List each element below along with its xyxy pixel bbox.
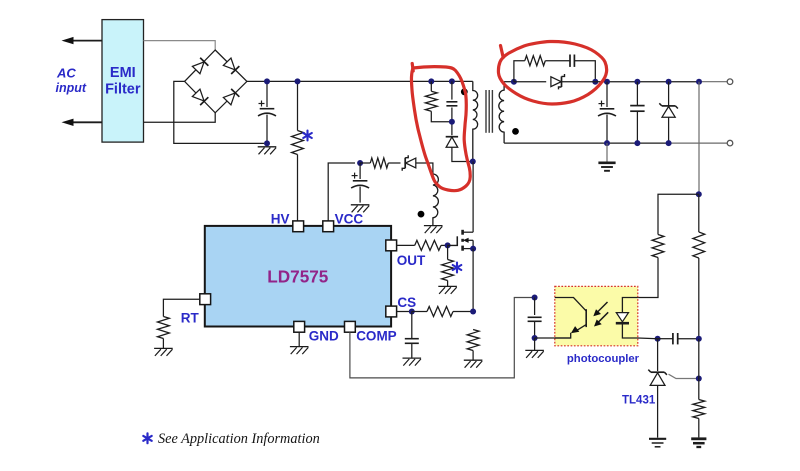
node feedback tap bbox=[696, 191, 702, 197]
ground output (earth) bbox=[598, 163, 615, 171]
capacitor output electrolytic bbox=[598, 82, 616, 143]
transformer primary polarity dot bbox=[461, 88, 468, 95]
wire source down to CS node bbox=[472, 249, 474, 312]
node snubber C top bbox=[449, 78, 455, 84]
node opto emitter bbox=[532, 335, 538, 341]
node HV resistor top bbox=[295, 78, 301, 84]
wire diode anode segment bbox=[514, 81, 546, 83]
wire HV resistor to HV pin bbox=[297, 155, 299, 222]
svg-text:LD7575: LD7575 bbox=[267, 267, 329, 287]
wire gate node down bbox=[447, 245, 449, 259]
bridge diode D1 (top-left) bbox=[192, 58, 208, 74]
terminal output + bbox=[727, 79, 733, 85]
wire rail to HV resistor bbox=[297, 81, 299, 130]
node zener top bbox=[666, 79, 672, 85]
node drain (primary bottom) bbox=[470, 159, 476, 165]
node snubber mid bbox=[449, 119, 455, 125]
node bulk cap top bbox=[264, 78, 270, 84]
resistor snubber R bbox=[425, 91, 437, 111]
node feedback at + rail bbox=[696, 79, 702, 85]
wire VCC resistor to diode bbox=[388, 162, 400, 164]
bridge rectifier diamond wires bbox=[185, 50, 247, 113]
capacitor output filter C2 bbox=[630, 82, 644, 143]
ground opto emitter bbox=[525, 350, 544, 358]
node CS at source bbox=[470, 309, 476, 315]
wire drain bbox=[472, 162, 474, 233]
ground aux winding bbox=[424, 226, 443, 234]
node C2 bottom bbox=[634, 140, 640, 146]
capacitor VCC (electrolytic) bbox=[351, 163, 369, 203]
svg-text:TL431: TL431 bbox=[622, 395, 656, 407]
wire LED resistor to photocoupler bbox=[638, 258, 658, 298]
capacitor CS filter bbox=[405, 312, 419, 358]
AC input arrow top bbox=[62, 37, 103, 44]
capacitor secondary snubber bbox=[570, 55, 574, 67]
wire main HV rail bbox=[247, 80, 473, 82]
node zener bottom bbox=[666, 140, 672, 146]
capacitor comp feedback bbox=[658, 333, 699, 344]
wire RT resistor to ground bbox=[162, 339, 164, 349]
pin VCC bbox=[323, 221, 334, 232]
note asterisk bbox=[143, 433, 151, 443]
wire secondary node to snubber R bbox=[514, 61, 525, 82]
resistor gate pulldown bbox=[442, 260, 454, 281]
red annotation loop secondary snubber bbox=[498, 41, 606, 104]
label CS bbox=[397, 295, 416, 310]
wire bridge left corner to ground rail bbox=[174, 81, 264, 143]
node CS bbox=[409, 309, 415, 315]
wire rail to snubber resistor bbox=[430, 81, 432, 91]
resistor R-HV (startup) bbox=[292, 131, 304, 155]
svg-text:CS: CS bbox=[397, 295, 416, 310]
asterisk at gate pulldown bbox=[453, 263, 462, 273]
wire gate resistor to gate bbox=[441, 244, 448, 246]
wire VCC pin riser bbox=[328, 163, 355, 221]
node TL431 ref bbox=[696, 376, 702, 382]
wire snubber R bottom to node bbox=[431, 111, 452, 122]
wire VCC diode to aux winding bbox=[416, 163, 433, 174]
wire OUT pin to gate resistor bbox=[397, 244, 415, 246]
photocoupler light arrow 1 bbox=[593, 302, 607, 316]
node bulk cap bottom bbox=[264, 140, 270, 146]
wire output + rail to terminal (gray) bbox=[699, 81, 727, 83]
label VCC bbox=[335, 212, 364, 227]
wire secondary bottom rail bbox=[504, 142, 668, 144]
label RT bbox=[181, 310, 200, 325]
photocoupler light arrow 2 bbox=[594, 312, 608, 326]
diode clamp D (pointing up) bbox=[446, 137, 458, 148]
resistor secondary snubber bbox=[525, 56, 546, 66]
op-amp U1 LD7575 body bbox=[205, 226, 391, 327]
wire opto emitter to box bbox=[535, 337, 555, 339]
EMI filter block bbox=[102, 20, 144, 143]
note See Application Information bbox=[158, 431, 320, 447]
pin GND bbox=[294, 321, 305, 332]
wire clamp diode to drain node bbox=[452, 147, 473, 161]
resistor CS filter bbox=[427, 307, 453, 317]
svg-text:input: input bbox=[56, 81, 87, 95]
wire gate node to MOSFET gate bbox=[448, 236, 458, 245]
wire diode cathode segment bbox=[562, 81, 596, 83]
ground gate pulldown bbox=[438, 286, 457, 294]
node Cout bottom bbox=[604, 140, 610, 146]
wire VCC node to resistor bbox=[360, 162, 370, 164]
resistor RT bbox=[158, 317, 170, 339]
svg-text:Filter: Filter bbox=[105, 82, 141, 98]
ground CS cap bbox=[403, 358, 422, 366]
wire snubber C to node bbox=[574, 61, 595, 82]
terminal output - bbox=[727, 140, 733, 146]
resistor LED series bbox=[652, 235, 664, 258]
wire CS resistor to source bbox=[453, 311, 473, 313]
wire pulldown to ground bbox=[447, 281, 449, 287]
wire cap node down bbox=[698, 339, 700, 400]
pin COMP bbox=[345, 321, 356, 332]
diode zener output clamp bbox=[659, 82, 678, 143]
label GND bbox=[309, 329, 339, 344]
wire sense resistor to ground bbox=[472, 351, 474, 361]
ground TL431 (earth) bbox=[649, 439, 666, 447]
ground sense resistor bbox=[464, 360, 483, 368]
aux winding polarity dot bbox=[418, 211, 425, 218]
transformer primary winding bbox=[473, 81, 478, 161]
capacitor snubber C bbox=[446, 102, 457, 106]
svg-text:photocoupler: photocoupler bbox=[567, 353, 640, 365]
node Cout top bbox=[604, 79, 610, 85]
node VCC cap bbox=[357, 160, 363, 166]
wire CS pin to node bbox=[397, 311, 412, 313]
transformer core bbox=[486, 90, 492, 133]
svg-text:EMI: EMI bbox=[110, 65, 136, 81]
node opto collector bbox=[532, 295, 538, 301]
node gate bbox=[445, 242, 451, 248]
svg-text:OUT: OUT bbox=[397, 253, 426, 268]
wire EMI filter to bridge bottom bbox=[144, 113, 216, 123]
wire output - rail to terminal (gray) bbox=[669, 142, 728, 144]
node cap right bbox=[696, 336, 702, 342]
photocoupler phototransistor bbox=[555, 298, 586, 339]
asterisk at HV resistor bbox=[303, 131, 312, 141]
wire snubber R to C bbox=[545, 60, 570, 62]
resistor gate drive bbox=[415, 240, 441, 250]
wire opto emitter to ground bbox=[534, 338, 536, 350]
transistor Q1 MOSFET bbox=[457, 230, 473, 251]
ground GND pin bbox=[290, 347, 309, 355]
node TL431 cathode bbox=[655, 336, 661, 342]
pin HV bbox=[293, 221, 304, 232]
pin CS bbox=[386, 306, 397, 317]
wire LED cathode to TL431 node bbox=[638, 337, 658, 340]
wire EMI filter to bridge top (gray) bbox=[144, 41, 216, 51]
label TL431 bbox=[622, 395, 656, 407]
wire RT pin to resistor bbox=[163, 299, 199, 316]
wire divider lower to ground bbox=[698, 419, 700, 438]
resistor VCC series bbox=[370, 158, 388, 168]
svg-text:GND: GND bbox=[309, 329, 339, 344]
resistor divider lower bbox=[693, 400, 705, 419]
wire TL431 ref link (gray) bbox=[669, 374, 699, 378]
red annotation loop primary snubber bbox=[411, 64, 470, 191]
diode VCC rectifier (pointing left) bbox=[402, 155, 416, 170]
wire divider to cap node bbox=[698, 258, 700, 339]
label COMP bbox=[356, 329, 397, 344]
svg-text:VCC: VCC bbox=[335, 212, 364, 227]
wire feedback sense vertical (gray) bbox=[698, 82, 700, 195]
wire output + rail bbox=[595, 81, 699, 83]
ground VCC cap bbox=[351, 205, 370, 213]
capacitor opto parallel bbox=[528, 298, 542, 339]
wire COMP to photocoupler bbox=[350, 298, 535, 378]
shunt regulator TL431 bbox=[648, 339, 667, 438]
wire tap down bbox=[698, 194, 700, 232]
ground RT bbox=[154, 348, 173, 356]
bridge diode D2 (top-right) bbox=[223, 58, 239, 74]
wire Cout to earth bbox=[606, 143, 608, 162]
svg-text:RT: RT bbox=[181, 310, 200, 325]
resistor divider upper bbox=[693, 232, 705, 258]
photocoupler box bbox=[555, 286, 638, 345]
node secondary top bbox=[511, 79, 517, 85]
node source-body bbox=[470, 246, 476, 252]
bridge diode D4 (bottom-right) bbox=[223, 89, 239, 105]
wire rail to snubber cap bbox=[451, 81, 453, 99]
diode secondary rectifier bbox=[551, 74, 565, 89]
ground divider (earth bold) bbox=[691, 439, 706, 447]
transformer secondary polarity dot bbox=[512, 128, 519, 135]
node C2 top bbox=[634, 79, 640, 85]
photocoupler LED bbox=[616, 298, 638, 339]
wire CS node to resistor bbox=[412, 311, 427, 313]
transformer auxiliary winding bbox=[433, 174, 439, 226]
label HV bbox=[271, 212, 290, 227]
label OUT bbox=[397, 253, 426, 268]
AC input label bbox=[56, 66, 87, 96]
wire snubber cap to node bbox=[451, 108, 453, 136]
resistor current sense bbox=[467, 330, 479, 351]
svg-text:COMP: COMP bbox=[356, 329, 397, 344]
AC input arrow bottom bbox=[62, 119, 103, 126]
pin RT bbox=[200, 294, 211, 305]
ground bulk cap bbox=[258, 147, 277, 155]
wire GND pin to ground bbox=[298, 332, 300, 346]
node snubber R top bbox=[428, 78, 434, 84]
transformer secondary winding bbox=[499, 82, 504, 143]
svg-text:See Application Information: See Application Information bbox=[158, 431, 320, 447]
svg-text:AC: AC bbox=[56, 66, 76, 81]
node snubber return bbox=[592, 79, 598, 85]
wire secondary top lead bbox=[504, 81, 514, 83]
bridge diode D3 (bottom-left) bbox=[192, 89, 208, 105]
pin OUT bbox=[386, 240, 397, 251]
label photocoupler bbox=[567, 353, 640, 365]
svg-text:HV: HV bbox=[271, 212, 290, 227]
wire tap to LED resistor bbox=[658, 194, 699, 234]
bulk capacitor C1 bbox=[258, 81, 276, 143]
